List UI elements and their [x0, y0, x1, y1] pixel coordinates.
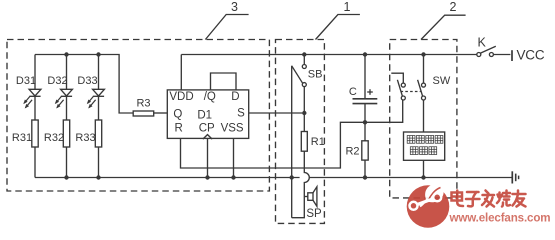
svg-text:1: 1: [344, 0, 351, 14]
svg-text:VCC: VCC: [517, 48, 545, 63]
svg-text:D33: D33: [77, 75, 97, 87]
svg-text:D32: D32: [47, 75, 67, 87]
svg-text:SW: SW: [433, 75, 451, 87]
svg-text:D1: D1: [197, 110, 212, 122]
svg-text:D31: D31: [16, 75, 36, 87]
svg-text:R32: R32: [44, 132, 64, 144]
svg-text:R33: R33: [75, 132, 95, 144]
svg-text:R1: R1: [311, 136, 325, 148]
svg-text:SB: SB: [308, 69, 323, 81]
svg-text:K: K: [478, 36, 487, 50]
svg-text:R31: R31: [12, 132, 32, 144]
svg-text:SP: SP: [306, 208, 322, 220]
svg-text:D: D: [231, 91, 239, 103]
svg-text:R2: R2: [345, 146, 359, 158]
svg-text:3: 3: [231, 0, 238, 14]
svg-text:CP: CP: [199, 123, 215, 135]
svg-text:www.elecfans.com: www.elecfans.com: [449, 212, 551, 225]
svg-text:R3: R3: [136, 98, 150, 110]
svg-text:C: C: [349, 86, 357, 98]
svg-text:2: 2: [450, 0, 457, 14]
svg-text:VDD: VDD: [169, 91, 193, 103]
svg-text:/Q: /Q: [204, 91, 216, 103]
svg-text:Q: Q: [173, 108, 182, 120]
svg-text:S: S: [237, 108, 245, 120]
svg-text:R: R: [174, 122, 182, 134]
svg-text:VSS: VSS: [221, 123, 244, 135]
